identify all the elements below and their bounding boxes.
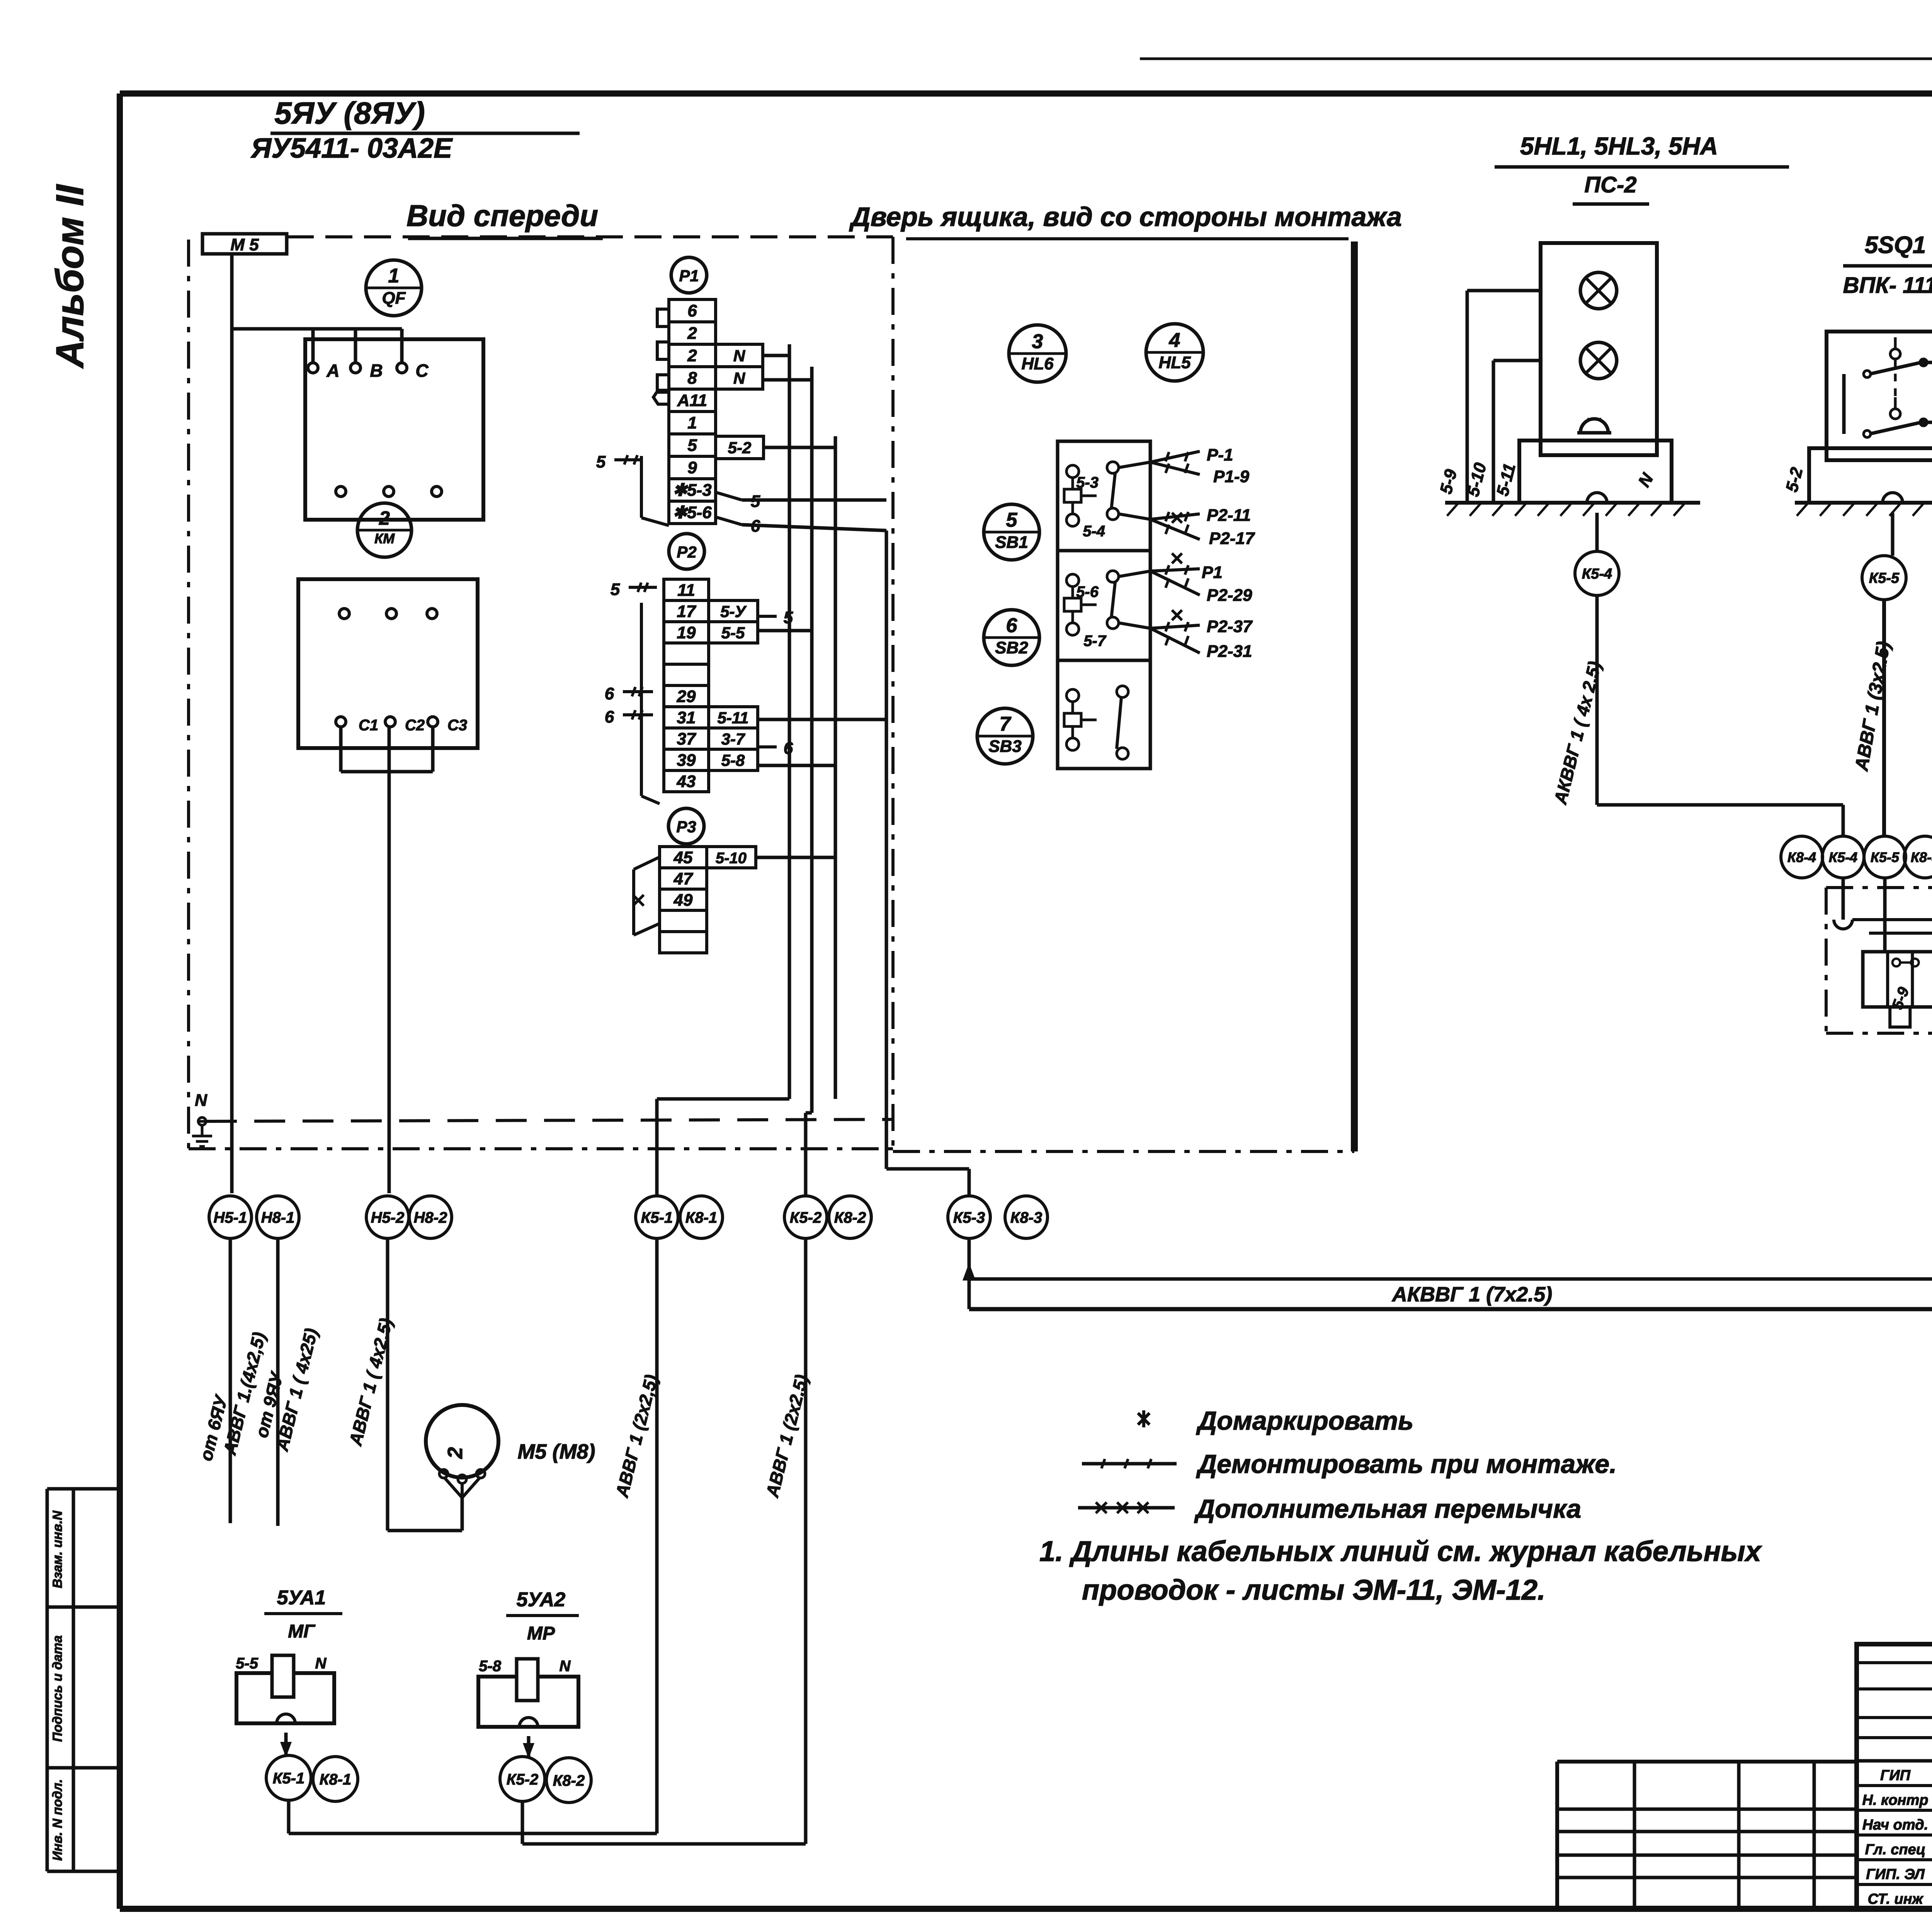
svg-text:ГИП: ГИП: [1880, 1767, 1911, 1784]
svg-text:К8-1: К8-1: [320, 1771, 351, 1788]
svg-text:Н8-2: Н8-2: [414, 1209, 447, 1226]
svg-text:К8-2: К8-2: [834, 1209, 866, 1226]
svg-text:5-5: 5-5: [236, 1655, 259, 1672]
svg-text:N: N: [560, 1658, 571, 1675]
svg-text:5-8: 5-8: [721, 751, 745, 769]
svg-text:7: 7: [1000, 713, 1012, 735]
svg-text:С2: С2: [405, 717, 425, 734]
svg-text:6: 6: [687, 301, 697, 320]
svg-text:29: 29: [677, 687, 696, 706]
svg-text:ЯУ5411- 03А2Е: ЯУ5411- 03А2Е: [250, 133, 453, 164]
svg-text:К8-4: К8-4: [1787, 849, 1816, 865]
svg-text:SB2: SB2: [995, 638, 1028, 657]
svg-text:5SQ1: 5SQ1: [1865, 232, 1926, 259]
svg-text:А11: А11: [677, 391, 707, 410]
svg-text:2: 2: [687, 324, 697, 343]
svg-text:47: 47: [673, 869, 694, 888]
svg-text:К5-5: К5-5: [1869, 570, 1900, 587]
svg-text:5: 5: [1006, 509, 1018, 531]
svg-text:Взам. инв.N: Взам. инв.N: [50, 1510, 65, 1588]
svg-text:3: 3: [1032, 330, 1043, 353]
svg-text:К8-3: К8-3: [1010, 1209, 1042, 1226]
svg-text:К8-1: К8-1: [685, 1209, 717, 1226]
svg-text:9: 9: [687, 458, 697, 477]
svg-text:43: 43: [677, 772, 696, 791]
svg-text:QF: QF: [382, 289, 406, 308]
svg-text:31: 31: [677, 708, 696, 727]
svg-text:СТ. инж: СТ. инж: [1867, 1891, 1923, 1907]
svg-text:Альбом II: Альбом II: [48, 184, 92, 369]
svg-text:45: 45: [673, 848, 693, 867]
svg-text:М 5: М 5: [230, 235, 259, 254]
svg-text:5-10: 5-10: [716, 850, 747, 867]
svg-text:К5-3: К5-3: [953, 1209, 985, 1226]
svg-text:5-8: 5-8: [479, 1658, 502, 1675]
svg-text:SB3: SB3: [988, 737, 1022, 756]
svg-text:К5-4: К5-4: [1829, 849, 1857, 865]
svg-text:К5-5: К5-5: [1871, 849, 1900, 865]
svg-text:HL6: HL6: [1021, 354, 1054, 373]
svg-text:ПС-2: ПС-2: [1584, 172, 1636, 197]
svg-text:Р2-29: Р2-29: [1207, 586, 1252, 605]
svg-text:6: 6: [1006, 614, 1018, 637]
svg-text:Демонтировать при монтаже.: Демонтировать при монтаже.: [1196, 1449, 1617, 1479]
svg-text:5УА2: 5УА2: [517, 1588, 566, 1611]
svg-text:Инв. N подл.: Инв. N подл.: [50, 1779, 65, 1861]
svg-text:К5-2: К5-2: [507, 1771, 538, 1788]
svg-text:19: 19: [677, 623, 696, 642]
svg-text:5-6: 5-6: [1076, 583, 1099, 600]
svg-text:Н8-1: Н8-1: [261, 1209, 295, 1226]
svg-text:5-2: 5-2: [728, 439, 752, 457]
svg-text:37: 37: [677, 730, 697, 748]
svg-text:N: N: [733, 369, 746, 387]
svg-text:К5-1: К5-1: [641, 1209, 673, 1226]
svg-text:5-У: 5-У: [720, 602, 747, 621]
svg-text:Вид спереди: Вид спереди: [406, 199, 598, 233]
svg-text:Р1-9: Р1-9: [1213, 467, 1249, 486]
svg-text:ВПК- 1111: ВПК- 1111: [1843, 273, 1932, 298]
svg-text:В: В: [370, 361, 383, 381]
svg-text:Нач отд.: Нач отд.: [1862, 1817, 1928, 1833]
svg-text:Р-1: Р-1: [1207, 446, 1233, 464]
svg-text:ГИП. ЭЛ: ГИП. ЭЛ: [1866, 1866, 1925, 1883]
svg-text:С: С: [415, 361, 429, 381]
svg-text:5ЯУ (8ЯУ): 5ЯУ (8ЯУ): [274, 96, 425, 130]
svg-text:Н5-2: Н5-2: [371, 1209, 405, 1226]
svg-text:К5-4: К5-4: [1582, 566, 1612, 582]
svg-text:5-5: 5-5: [721, 624, 745, 642]
svg-text:Р2-17: Р2-17: [1209, 529, 1255, 548]
svg-text:Н. контр: Н. контр: [1862, 1792, 1929, 1808]
svg-text:С1: С1: [359, 717, 378, 734]
svg-text:5: 5: [687, 436, 697, 455]
svg-text:2: 2: [379, 507, 390, 529]
svg-text:КМ: КМ: [374, 531, 395, 546]
svg-text:Р2-31: Р2-31: [1207, 642, 1252, 661]
svg-text:5: 5: [596, 452, 606, 471]
svg-text:Подпись и дата: Подпись и дата: [50, 1635, 65, 1742]
svg-text:Домаркировать: Домаркировать: [1196, 1406, 1413, 1435]
svg-text:проводок - листы ЭМ-11, ЭМ-12: проводок - листы ЭМ-11, ЭМ-12.: [1082, 1574, 1546, 1606]
svg-text:6: 6: [605, 684, 614, 703]
svg-text:Р3: Р3: [676, 818, 696, 836]
svg-text:5-4: 5-4: [1083, 523, 1105, 540]
svg-text:Р1: Р1: [1202, 563, 1223, 582]
svg-text:N: N: [195, 1091, 207, 1110]
svg-text:5-7: 5-7: [1083, 633, 1107, 650]
svg-text:11: 11: [677, 581, 695, 600]
svg-text:Р1: Р1: [679, 267, 699, 285]
svg-text:✱5-3: ✱5-3: [673, 481, 711, 500]
svg-text:Р2-11: Р2-11: [1207, 506, 1251, 525]
svg-text:К5-1: К5-1: [273, 1770, 304, 1787]
svg-text:Р2: Р2: [677, 543, 696, 561]
svg-text:М5 (М8): М5 (М8): [518, 1440, 595, 1463]
svg-text:SB1: SB1: [995, 533, 1028, 552]
svg-text:5HL1, 5HL3, 5НА: 5HL1, 5HL3, 5НА: [1520, 132, 1718, 160]
svg-text:С3: С3: [447, 717, 467, 734]
svg-text:1. Длины кабельных линий см. ж: 1. Длины кабельных линий см. журнал кабе…: [1039, 1535, 1762, 1567]
svg-text:8: 8: [687, 369, 697, 388]
svg-text:МГ: МГ: [288, 1621, 316, 1642]
svg-text:2: 2: [687, 346, 697, 365]
svg-text:N: N: [315, 1655, 327, 1672]
svg-text:HL5: HL5: [1158, 353, 1191, 372]
svg-text:Дверь ящика, вид со стороны мо: Дверь ящика, вид со стороны монтажа: [849, 202, 1402, 232]
svg-text:49: 49: [673, 891, 693, 910]
svg-text:АКВВГ 1 (7х2.5): АКВВГ 1 (7х2.5): [1391, 1283, 1552, 1306]
svg-text:6: 6: [605, 707, 614, 726]
svg-text:3-7: 3-7: [721, 730, 745, 748]
svg-text:1: 1: [388, 265, 400, 287]
svg-text:К8-2: К8-2: [553, 1772, 585, 1789]
svg-text:Р2-37: Р2-37: [1207, 617, 1253, 636]
svg-text:Н5-1: Н5-1: [214, 1209, 247, 1226]
svg-text:К5-2: К5-2: [790, 1209, 821, 1226]
svg-text:17: 17: [677, 602, 697, 621]
svg-text:N: N: [733, 347, 746, 365]
svg-text:МР: МР: [527, 1623, 555, 1644]
svg-text:✱5-6: ✱5-6: [673, 503, 712, 522]
svg-text:39: 39: [677, 751, 696, 770]
svg-text:А: А: [326, 361, 339, 381]
svg-text:К8-5: К8-5: [1911, 849, 1932, 865]
svg-text:2: 2: [444, 1447, 467, 1459]
svg-text:5УА1: 5УА1: [277, 1587, 326, 1609]
svg-text:Гл. спец: Гл. спец: [1865, 1842, 1926, 1858]
svg-text:1: 1: [687, 413, 697, 432]
svg-text:5: 5: [611, 580, 620, 599]
svg-text:5-3: 5-3: [1076, 474, 1099, 491]
svg-text:4: 4: [1169, 329, 1180, 352]
svg-text:Дополнительная перемычка: Дополнительная перемычка: [1194, 1494, 1581, 1524]
svg-text:5-11: 5-11: [718, 709, 749, 727]
